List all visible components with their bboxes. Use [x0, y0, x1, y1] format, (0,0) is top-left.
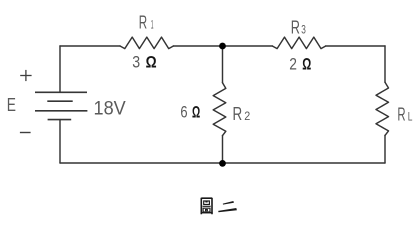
resistor R2	[213, 83, 226, 136]
svg-text:3: 3	[301, 25, 306, 37]
wire R1 to node A	[173, 45, 222, 47]
wire right vertical bottom	[384, 135, 386, 163]
svg-text:E: E	[7, 95, 16, 115]
svg-text:L: L	[408, 112, 413, 124]
svg-text:Ω: Ω	[146, 54, 157, 72]
svg-text:R: R	[139, 13, 147, 33]
wire R3 to top-right corner	[326, 45, 385, 47]
svg-text:R: R	[233, 104, 243, 124]
svg-text:6: 6	[180, 104, 187, 122]
node B junction dot	[219, 160, 226, 167]
svg-text:R: R	[291, 18, 300, 38]
minus sign	[20, 132, 31, 134]
svg-text:Ω: Ω	[192, 104, 200, 122]
caption glyph ER (two)	[218, 201, 237, 212]
resistor R1	[120, 37, 173, 49]
svg-text:18V: 18V	[94, 98, 126, 120]
wire bottom horizontal	[60, 162, 385, 164]
wire middle vertical top	[222, 46, 224, 83]
wire left vertical top	[59, 46, 61, 92]
wire left vertical bottom	[59, 120, 61, 163]
svg-text:1: 1	[151, 20, 154, 32]
battery E plates	[35, 92, 87, 119]
svg-text:Ω: Ω	[302, 55, 311, 73]
caption glyph TU (figure)	[201, 198, 213, 214]
svg-text:R: R	[397, 105, 405, 125]
svg-text:3: 3	[132, 54, 140, 72]
plus sign	[20, 70, 31, 81]
svg-text:2: 2	[289, 55, 297, 73]
wire right vertical top	[384, 46, 386, 82]
wire middle vertical bottom	[222, 136, 224, 164]
wire top-left horizontal	[60, 45, 120, 47]
resistor RL	[376, 82, 389, 135]
svg-text:2: 2	[244, 111, 250, 123]
node A junction dot	[219, 43, 226, 50]
resistor R3	[272, 37, 325, 49]
wire node A to R3	[223, 45, 273, 47]
